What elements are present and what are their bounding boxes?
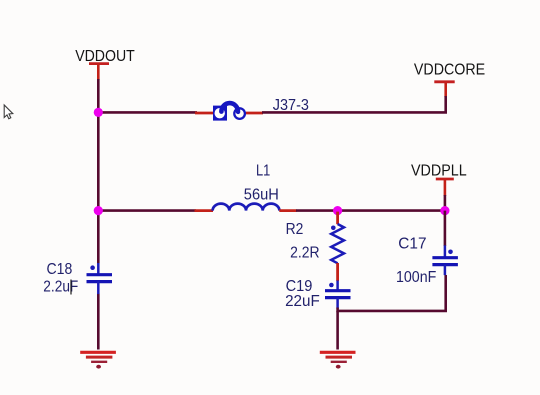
node junction VDDPLL [440,206,449,215]
pin stub L1 pin 2 [279,209,296,212]
pin 1 marker dot C19 [329,283,334,288]
svg-text:2.2R: 2.2R [290,245,319,262]
node junction R2 branch [333,206,342,215]
pin stub R2 pin 2 / C19 pin 1 [336,263,339,281]
svg-text:C17: C17 [398,235,426,252]
wire second horizontal left (rail to L1) [98,209,196,212]
pin stub jumper pin 2 [246,112,263,115]
pin 1 marker dot R2 [331,226,336,231]
svg-text:C18: C18 [47,261,73,278]
node junction on rail at top wire [94,108,103,117]
resistor R2 [331,224,344,263]
svg-text:56uH: 56uH [244,187,279,204]
svg-text:VDDPLL: VDDPLL [411,162,467,179]
capacitor C18 [87,263,113,294]
pin 1 marker dot C17 [448,250,453,255]
svg-text:VDDOUT: VDDOUT [75,48,135,65]
svg-text:VDDCORE: VDDCORE [414,61,485,78]
text cursor I-beam in 2.2uF [70,280,72,295]
mouse cursor [4,105,13,119]
wire top horizontal left (node to jumper) [98,111,197,114]
wire VDDPLL node down to C17 [444,211,447,246]
pin stub jumper pin 1 [195,112,213,115]
svg-text:100nF: 100nF [396,269,437,286]
pin stub L1 pin 1 [195,209,214,212]
inductor L1 [213,204,280,211]
wire vertical main VDDOUT rail [97,79,100,263]
ground symbol 1 (below C18) [80,352,116,368]
wire VDDPLL stub down to node [444,195,447,211]
ground symbol 2 (below C19) [320,352,356,368]
wire second horizontal right (L1 to VDDPLL) [296,209,445,212]
power symbol VDDOUT [89,64,109,80]
power symbol VDDCORE [434,82,454,97]
jumper J37 [213,103,245,120]
wire vertical below C18 to ground [97,294,100,350]
wire down to ground 2 [336,311,339,350]
capacitor C17 [432,245,458,275]
svg-text:L1: L1 [256,163,270,180]
pin 1 marker dot C18 [90,265,95,270]
svg-text:2.2uF: 2.2uF [43,279,78,296]
svg-text:22uF: 22uF [285,293,320,310]
power symbol VDDPLL [436,179,454,196]
wire C19 bottom corner to ground and right [338,275,446,311]
pin stub R2 pin 1 [336,212,339,225]
capacitor C19 [325,281,351,309]
node junction on rail at second wire [94,206,103,215]
svg-text:R2: R2 [286,221,304,238]
wire top horizontal right (jumper to VDDCORE) [262,96,446,112]
svg-text:J37-3: J37-3 [273,97,309,114]
